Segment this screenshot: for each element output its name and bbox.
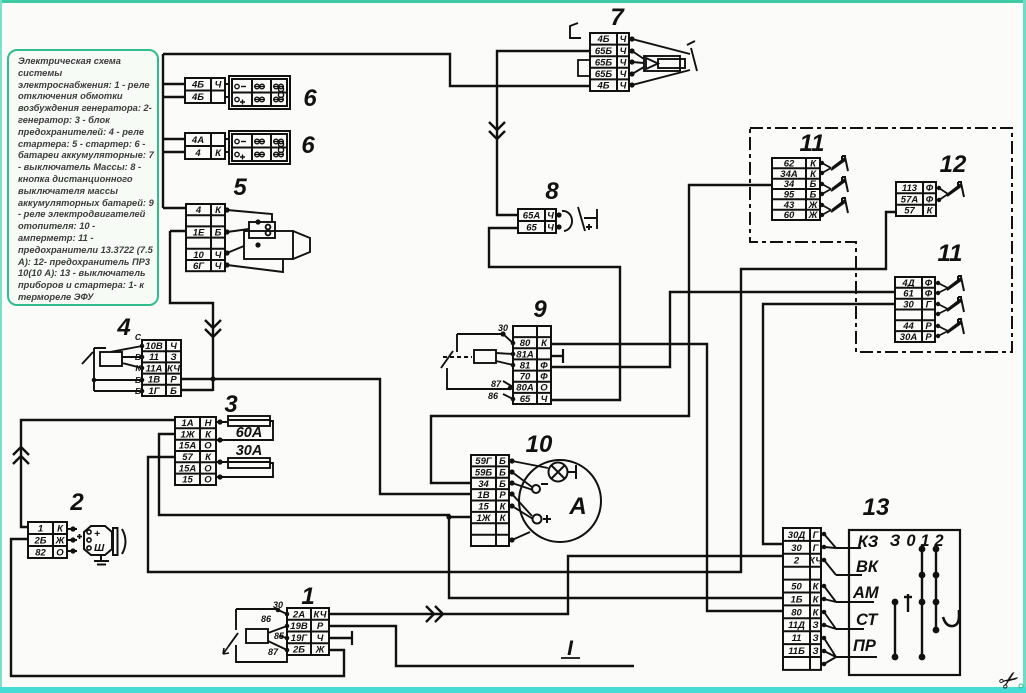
- svg-text:Ф: Ф: [926, 183, 934, 194]
- legend text box: [7, 49, 159, 306]
- svg-text:2: 2: [69, 489, 84, 516]
- svg-text:65А: 65А: [523, 210, 541, 221]
- svg-text:57А: 57А: [901, 194, 919, 205]
- wire 30Г fuse11b to switch 13: [763, 304, 895, 544]
- relay 9 coil and contacts: [441, 334, 513, 399]
- svg-text:80А: 80А: [516, 383, 534, 394]
- svg-text:2Б: 2Б: [33, 535, 46, 546]
- svg-text:59Б: 59Б: [475, 468, 493, 479]
- connector battery 6a: [225, 84, 229, 97]
- terminator 81А: [562, 349, 564, 363]
- fuse 60А: [216, 416, 273, 440]
- svg-text:КЧ: КЧ: [167, 363, 180, 374]
- button 8 symbol: [562, 207, 597, 231]
- svg-text:Ч: Ч: [620, 46, 627, 57]
- svg-text:15: 15: [182, 475, 193, 486]
- svg-text:11: 11: [800, 130, 825, 157]
- svg-text:1Ж: 1Ж: [476, 513, 491, 524]
- svg-text:11: 11: [149, 352, 159, 363]
- svg-text:О: О: [540, 383, 548, 394]
- wire 65Б flow chevron: [489, 122, 505, 139]
- svg-text:86: 86: [261, 614, 272, 624]
- svg-text:Ф: Ф: [926, 194, 934, 205]
- svg-text:Ж: Ж: [55, 535, 66, 546]
- svg-text:15: 15: [478, 502, 489, 513]
- svg-text:60А: 60А: [236, 425, 263, 441]
- svg-text:1В: 1В: [148, 375, 160, 386]
- svg-text:44: 44: [902, 321, 914, 332]
- wire relay1 19Г stub: [329, 637, 352, 639]
- svg-text:70: 70: [520, 372, 531, 383]
- switch 13 row labels: [852, 558, 880, 655]
- svg-text:11Б: 11Б: [788, 646, 805, 657]
- wire 1Е flow chevron: [205, 320, 221, 337]
- svg-text:4: 4: [195, 205, 202, 216]
- svg-text:I: I: [567, 637, 574, 660]
- svg-text:6Г: 6Г: [193, 261, 205, 272]
- svg-text:О: О: [204, 441, 212, 452]
- wire 2А flow chevron: [426, 606, 443, 622]
- svg-text:К: К: [813, 594, 820, 605]
- svg-text:Ч: Ч: [215, 80, 222, 91]
- svg-text:57: 57: [904, 206, 915, 217]
- svg-text:6: 6: [303, 85, 317, 112]
- svg-text:Ч: Ч: [620, 57, 627, 68]
- switch 13 terminal fan wires: [824, 534, 836, 664]
- battery 6b symbol: [229, 131, 290, 164]
- relay 1 coil and contacts: [228, 609, 287, 662]
- svg-text:З: З: [890, 532, 901, 550]
- svg-text:АМ: АМ: [852, 584, 880, 602]
- switch 13 terminals terminal block: [783, 528, 821, 670]
- button 8 terminal block: [518, 209, 556, 233]
- svg-text:Ч: Ч: [541, 394, 548, 405]
- svg-text:5: 5: [233, 174, 247, 201]
- starter 5 motor symbol: [244, 222, 310, 259]
- svg-text:Р: Р: [317, 621, 324, 632]
- wire 65 bus relay9 to button 8: [489, 228, 620, 400]
- svg-text:Ч: Ч: [170, 341, 177, 352]
- svg-text:87: 87: [268, 647, 279, 657]
- generator 2 symbol: [67, 526, 126, 565]
- relay 1 switch arrow: [223, 647, 229, 654]
- junction relay4 1В/feeder: [210, 376, 215, 381]
- svg-text:Р: Р: [925, 332, 932, 343]
- fuse 30А: [216, 458, 273, 477]
- battery 6b terminal block: [185, 133, 225, 159]
- svg-text:Б: Б: [499, 456, 506, 467]
- svg-text:Ч: Ч: [620, 81, 627, 92]
- svg-text:З: З: [812, 620, 818, 631]
- svg-text:19В: 19В: [290, 621, 308, 632]
- svg-text:Г: Г: [813, 543, 820, 554]
- mass switch 7 terminal block: [590, 33, 629, 91]
- svg-text:30А: 30А: [900, 332, 918, 343]
- svg-text:Б: Б: [499, 479, 506, 490]
- wire 1Б branch ammeter to switch 13: [449, 517, 783, 598]
- wire 81/61 bus relay9 to fuse 11b: [551, 292, 895, 367]
- svg-text:1Е: 1Е: [193, 227, 205, 238]
- fuse 11b terminal block: [895, 277, 935, 342]
- mass switch 7 side tab: [578, 60, 590, 76]
- fuse 11a terminal block: [772, 158, 820, 220]
- switch 13 position header: [858, 532, 944, 551]
- ammeter 10 terminal block: [471, 455, 509, 546]
- svg-text:65Б: 65Б: [595, 46, 613, 57]
- svg-text:59Г: 59Г: [475, 456, 493, 467]
- svg-text:34: 34: [784, 179, 795, 190]
- svg-text:86: 86: [488, 391, 499, 401]
- svg-text:1А: 1А: [181, 418, 193, 429]
- relay 1 terminal block: [287, 608, 329, 655]
- svg-text:Р: Р: [925, 321, 932, 332]
- svg-text:30А: 30А: [236, 443, 263, 459]
- fuse box enclosure (dash-dot frame): [750, 128, 1012, 352]
- wire generator 1К to fuse block 3: [21, 420, 175, 527]
- svg-text:81А: 81А: [516, 349, 534, 360]
- svg-text:1В: 1В: [477, 490, 489, 501]
- battery 6a terminal block: [185, 78, 225, 103]
- svg-text:Б: Б: [810, 179, 817, 190]
- svg-text:1: 1: [38, 523, 43, 534]
- wire left vertical 4Б feeder: [162, 54, 164, 208]
- svg-text:К: К: [813, 582, 820, 593]
- wire 19В relay1 to thermo relay I: [329, 626, 634, 666]
- svg-text:4Б: 4Б: [191, 80, 204, 91]
- svg-text:+: +: [94, 528, 100, 540]
- relay 4 pin letters: [135, 332, 142, 396]
- wire 80 bus relay9 to switch 13: [551, 344, 783, 611]
- svg-text:Р: Р: [170, 375, 177, 386]
- svg-text:Ж: Ж: [808, 210, 819, 221]
- svg-text:0: 0: [906, 532, 916, 550]
- svg-text:6: 6: [301, 132, 315, 159]
- svg-text:Ч: Ч: [317, 633, 324, 644]
- svg-text:81: 81: [520, 360, 531, 371]
- svg-text:4Б: 4Б: [191, 92, 204, 103]
- svg-text:15А: 15А: [179, 441, 197, 452]
- svg-text:Ф: Ф: [540, 372, 548, 383]
- svg-text:2Б: 2Б: [292, 645, 305, 656]
- svg-text:Б: Б: [170, 386, 177, 397]
- svg-text:С: С: [135, 332, 142, 342]
- svg-text:2А: 2А: [292, 609, 305, 620]
- svg-text:СТ: СТ: [856, 611, 879, 629]
- relay 9 pin numbers: [488, 323, 508, 401]
- starter 5 pin wires: [227, 210, 283, 272]
- svg-text:15А: 15А: [179, 463, 197, 474]
- svg-text:Ф: Ф: [925, 289, 933, 300]
- wire stub battery 6a: [163, 84, 185, 97]
- svg-text:К: К: [215, 148, 222, 159]
- terminator 19Г: [351, 631, 353, 645]
- svg-text:Ч: Ч: [547, 222, 554, 233]
- wire relay4 1В row to ammeter 1В row: [181, 379, 471, 494]
- svg-text:А: А: [568, 493, 586, 520]
- wire 2А relay1 to switch 13: [329, 556, 783, 614]
- svg-text:10: 10: [526, 431, 553, 458]
- svg-text:11Д: 11Д: [788, 620, 805, 631]
- wire 65Б from mass switch down to button 8: [497, 51, 590, 215]
- svg-text:1Ж: 1Ж: [180, 429, 195, 440]
- ammeter 10 dial: [519, 460, 601, 542]
- wire relay4 1Г row stub: [181, 389, 213, 391]
- svg-text:Ж: Ж: [315, 645, 326, 656]
- scissors mark: [994, 664, 1026, 693]
- svg-text:34: 34: [478, 479, 489, 490]
- battery 6a symbol: [229, 76, 290, 109]
- svg-text:3: 3: [224, 391, 238, 418]
- wire 1Е feeder starter to relay 4 area: [170, 231, 213, 391]
- svg-text:К: К: [57, 523, 64, 534]
- svg-text:113: 113: [902, 183, 918, 194]
- svg-text:З: З: [812, 633, 818, 644]
- svg-text:13: 13: [863, 494, 890, 521]
- svg-text:50: 50: [791, 582, 802, 593]
- svg-text:Р: Р: [499, 490, 506, 501]
- svg-text:4: 4: [116, 314, 130, 341]
- svg-text:Ф: Ф: [925, 278, 933, 289]
- generator 2 terminal marks: [94, 528, 105, 554]
- wire stub starter row 4: [163, 207, 186, 209]
- svg-text:1Г: 1Г: [148, 386, 160, 397]
- svg-text:80: 80: [791, 607, 802, 618]
- relay 1 pin numbers: [261, 600, 285, 657]
- svg-text:11: 11: [938, 240, 963, 267]
- switch 13 contact hook: [943, 610, 959, 626]
- svg-text:82: 82: [35, 547, 46, 558]
- svg-text:7: 7: [610, 4, 625, 31]
- fuse links 11b: [938, 283, 948, 336]
- svg-text:З: З: [170, 352, 176, 363]
- svg-text:60: 60: [784, 210, 795, 221]
- fuse link 12: [939, 188, 948, 200]
- fuse links 11a: [822, 163, 831, 215]
- wire 57 bus fuse3 to fuse12: [148, 212, 896, 572]
- svg-text:1: 1: [301, 583, 314, 610]
- svg-text:11А: 11А: [146, 363, 163, 374]
- svg-text:30: 30: [903, 300, 914, 311]
- svg-text:4Д: 4Д: [901, 278, 914, 289]
- svg-text:О: О: [204, 463, 212, 474]
- svg-text:✂: ✂: [994, 664, 1026, 693]
- switch 13 row stubs: [836, 548, 877, 657]
- svg-text:Ч: Ч: [215, 250, 222, 261]
- wire generator 2Б to relay 1: [11, 539, 344, 676]
- svg-text:О: О: [56, 547, 64, 558]
- svg-text:8: 8: [545, 178, 559, 205]
- svg-text:9: 9: [533, 296, 547, 323]
- ammeter 10 pin wires: [512, 461, 548, 540]
- svg-text:Н: Н: [205, 418, 213, 429]
- svg-text:30Д: 30Д: [788, 530, 806, 541]
- svg-text:З: З: [812, 646, 818, 657]
- svg-text:11: 11: [792, 633, 802, 644]
- svg-text:10: 10: [193, 250, 204, 261]
- svg-text:ВК: ВК: [856, 558, 880, 576]
- wire relay9 81А stub: [551, 355, 563, 357]
- svg-text:ПР: ПР: [853, 637, 877, 655]
- switch 13 body: [849, 530, 960, 675]
- generator 2 terminal block: [28, 522, 67, 558]
- svg-text:1Б: 1Б: [790, 594, 802, 605]
- svg-text:65: 65: [520, 394, 531, 405]
- svg-text:КЧ: КЧ: [313, 609, 326, 620]
- svg-text:Б: Б: [215, 227, 222, 238]
- svg-text:Ч: Ч: [547, 210, 554, 221]
- connector battery 6b: [225, 139, 229, 152]
- junction 1Ж branch: [446, 514, 451, 519]
- svg-text:Ф: Ф: [540, 360, 548, 371]
- svg-text:4: 4: [194, 148, 201, 159]
- svg-text:Ч: Ч: [620, 69, 627, 80]
- svg-text:4Б: 4Б: [596, 81, 609, 92]
- svg-text:4А: 4А: [191, 135, 204, 146]
- svg-text:Г: Г: [813, 530, 820, 541]
- svg-text:О: О: [204, 475, 212, 486]
- svg-text:61: 61: [903, 289, 914, 300]
- wire 1Ж bus fuse3 to ammeter: [159, 434, 471, 517]
- svg-text:65Б: 65Б: [595, 57, 613, 68]
- wire 34 bus ammeter to fuse block 11a: [431, 185, 772, 483]
- wire stub battery 6b: [163, 139, 185, 152]
- svg-text:Ч: Ч: [620, 34, 627, 45]
- wire 1К flow chevron: [13, 447, 29, 464]
- svg-text:80: 80: [520, 338, 531, 349]
- svg-text:12: 12: [940, 151, 967, 178]
- fuse 12 terminal block: [896, 182, 936, 216]
- fuse block 3 terminal block: [175, 417, 216, 485]
- svg-text:10В: 10В: [145, 341, 163, 352]
- relay 4 terminal block: [142, 340, 181, 396]
- svg-text:Ш: Ш: [94, 542, 105, 554]
- svg-text:30: 30: [791, 543, 802, 554]
- svg-text:КЧ: КЧ: [809, 556, 822, 567]
- svg-text:65Б: 65Б: [595, 69, 613, 80]
- relay 9 terminal block: [513, 326, 551, 404]
- svg-text:Ч: Ч: [215, 261, 222, 272]
- connector hook С: [570, 23, 581, 38]
- svg-text:87: 87: [491, 379, 502, 389]
- svg-text:19Г: 19Г: [291, 633, 309, 644]
- switch 13 position columns: [895, 549, 936, 657]
- starter 5 terminal block: [186, 204, 225, 271]
- svg-text:65: 65: [526, 222, 537, 233]
- svg-text:Б: Б: [499, 468, 506, 479]
- svg-text:4Б: 4Б: [596, 34, 609, 45]
- wire 4Б bus top (batteries to mass switch): [163, 54, 590, 86]
- relay 4 coil and contacts: [82, 346, 142, 391]
- svg-text:2: 2: [793, 556, 800, 567]
- mass switch 7 contactor: [632, 39, 697, 85]
- svg-text:К: К: [813, 607, 820, 618]
- svg-text:57: 57: [182, 452, 193, 463]
